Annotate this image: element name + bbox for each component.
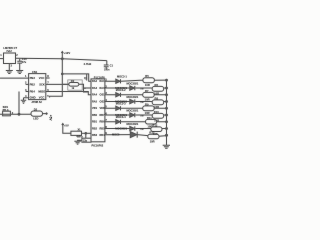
value label 1W T4: [140, 129, 144, 131]
net label vertical: [48, 115, 52, 122]
resistor R10: [152, 113, 164, 118]
node +12V junction: [61, 58, 63, 60]
ground regulator: [6, 63, 13, 74]
capacitor C10: [17, 59, 22, 71]
resistor R12: [151, 127, 162, 132]
regulator U2: [4, 53, 16, 64]
node X1 out: [85, 133, 87, 135]
channel row 3: [105, 94, 167, 96]
diode D7: [116, 120, 121, 124]
channel row 5: [105, 107, 167, 109]
value label 1W T3: [140, 115, 144, 117]
wire rail corner down to C11: [106, 61, 108, 65]
label MOC1: [117, 75, 127, 79]
diode D1: [116, 79, 121, 83]
pin numbers CN1 left: [25, 74, 27, 98]
pin number 17: [105, 78, 107, 82]
value label 1W T2: [140, 102, 144, 104]
value label 1W T1: [140, 88, 144, 90]
resistor R2: [69, 83, 79, 87]
triac T5: [130, 132, 137, 138]
wire +12V rail: [16, 58, 107, 60]
LED D2: [31, 111, 43, 116]
wire CN1 pin6 to MCU: [46, 92, 91, 95]
node row2-bus: [166, 87, 168, 89]
node row6-bus: [166, 114, 168, 116]
capacitor C11: [104, 65, 109, 69]
wire Q1 collector: [86, 74, 88, 81]
resistor R11: [146, 119, 157, 124]
triac T4: [130, 126, 135, 130]
wire X1 to MCU: [82, 132, 92, 134]
diode D3: [116, 93, 121, 97]
ground right bus: [163, 145, 170, 148]
node bus row y108.3: [166, 107, 168, 109]
switch S1 labels: [3, 106, 9, 112]
channel row 7: [105, 121, 167, 123]
ground C10: [16, 71, 23, 74]
regulator U2 label: [3, 46, 17, 53]
pin numbers CN1 right: [47, 74, 49, 98]
channel row 2: wire pin to bus: [105, 87, 167, 89]
MCU U1 bottom label: [92, 144, 104, 148]
wire regulator input: [0, 58, 4, 60]
wire CN1 pin1: [0, 77, 29, 79]
wire R2 right: [79, 84, 89, 92]
resistor R7: [143, 92, 155, 97]
node row4-bus: [166, 101, 168, 103]
ground CN1 pin4: [21, 98, 26, 103]
MCU internal pin labels: [92, 80, 105, 137]
node bus row y81.3: [166, 79, 168, 81]
wire +5V to X1: [63, 128, 71, 134]
wire D2 to arrow: [43, 113, 48, 115]
channel row 1: wire pin to bus: [105, 80, 167, 81]
resistor R5: [143, 78, 155, 83]
channel row 8: [105, 128, 167, 130]
triac T3: [130, 113, 135, 117]
wire right bus: [166, 80, 168, 145]
optocoupler U3 outline: [68, 80, 82, 90]
resistor R6: [152, 86, 164, 91]
channel row 6: [105, 114, 167, 116]
channel row 9: [105, 135, 167, 137]
MCU U1: [91, 79, 105, 142]
capacitor C12: [82, 138, 91, 142]
resistor R13: [148, 134, 159, 139]
right side channel rows: [105, 74, 170, 148]
crystal X1: [71, 131, 82, 135]
node bus row y135.3: [166, 134, 168, 136]
wire junction up to CN1: [18, 92, 20, 115]
triac T2: [130, 99, 135, 103]
label MOC2: [115, 86, 127, 90]
power +5V arrow bottom: [62, 124, 64, 128]
wire vertical from +12V node: [50, 59, 63, 98]
node at y73.9: [62, 73, 64, 75]
wire bottom-left net: [0, 113, 31, 115]
channel row 4: [105, 101, 167, 103]
connector CN1 (ISP header): [29, 74, 46, 100]
node junction bottom-left: [18, 113, 20, 115]
pin stubs CN1 left: [24, 84, 29, 97]
power +12V arrow: [61, 52, 63, 59]
wire to C12: [85, 133, 87, 138]
ground bottom-left of MCU: [74, 140, 82, 144]
wire CN1 pin8 stub: [46, 77, 50, 79]
diode D5: [116, 106, 121, 110]
node bus row y94.8: [166, 94, 168, 96]
resistor R8: [152, 100, 164, 105]
node row8-bus: [166, 128, 168, 130]
pin labels CN1 inside: [30, 76, 46, 100]
connector CN1 label: [32, 70, 38, 74]
resistor R9: [143, 106, 155, 111]
wire +12V to MCU pin1: [62, 74, 91, 81]
node row9-bus: [166, 134, 168, 136]
wire CN1 pin7 to MCU: [46, 84, 91, 88]
node bus row y121.8: [166, 121, 168, 123]
triac T1: [130, 86, 135, 90]
wire R2 left: [62, 83, 69, 85]
label 4.7kOhm: [84, 62, 92, 66]
MCU U1 top label: [94, 75, 106, 79]
switch S1: [3, 111, 11, 116]
